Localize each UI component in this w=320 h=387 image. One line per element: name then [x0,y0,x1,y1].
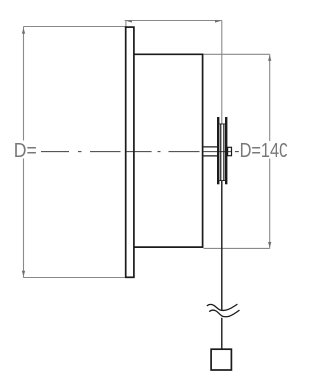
svg-text:D=140: D=140 [240,140,289,162]
svg-text:D=: D= [14,140,37,162]
